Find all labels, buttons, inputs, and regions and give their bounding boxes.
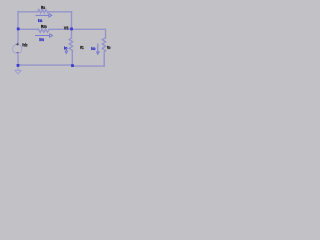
resistor Rs bbox=[38, 10, 49, 13]
wire right drop from top rail bbox=[71, 12, 73, 29]
wire top-left vertical bbox=[17, 12, 19, 45]
svg-text:Io: Io bbox=[91, 46, 96, 51]
ground symbol bbox=[15, 65, 21, 74]
wire top rail bbox=[18, 11, 72, 13]
wire Ro bottom lead bbox=[103, 52, 105, 66]
current arrow Io bbox=[96, 44, 99, 55]
junction node bottom left bbox=[17, 64, 20, 67]
wire Ro top lead bbox=[105, 29, 107, 38]
voltage source V1 circle bbox=[13, 44, 22, 53]
junction node at source top rail bbox=[17, 28, 20, 31]
V1 plus mark bbox=[16, 43, 19, 46]
svg-text:Io: Io bbox=[64, 46, 68, 51]
V1 minus mark bbox=[17, 52, 19, 54]
current arrow I1 bbox=[65, 50, 68, 54]
svg-text:R1: R1 bbox=[80, 45, 84, 50]
svg-text:Ro: Ro bbox=[107, 45, 111, 50]
resistor R1 bbox=[69, 38, 72, 52]
wire R1 top lead bbox=[71, 29, 73, 38]
wire source to bottom bbox=[17, 53, 19, 65]
current arrow Im bbox=[35, 34, 52, 38]
junction node VS bbox=[70, 28, 73, 31]
svg-text:Rm: Rm bbox=[41, 24, 47, 29]
svg-text:VS: VS bbox=[64, 25, 69, 30]
wire bottom rail bbox=[18, 65, 104, 66]
junction node R1 bottom bbox=[71, 64, 74, 67]
svg-text:Vdc: Vdc bbox=[22, 42, 28, 47]
wire R1 bottom lead bbox=[71, 52, 73, 66]
svg-text:Rs: Rs bbox=[41, 5, 46, 10]
resistor Ro bbox=[102, 38, 105, 52]
wire middle rail bbox=[18, 28, 106, 30]
svg-text:Is: Is bbox=[38, 18, 43, 23]
resistor Rm bbox=[37, 29, 49, 32]
current arrow Is bbox=[36, 14, 52, 18]
svg-text:Im: Im bbox=[39, 37, 44, 42]
